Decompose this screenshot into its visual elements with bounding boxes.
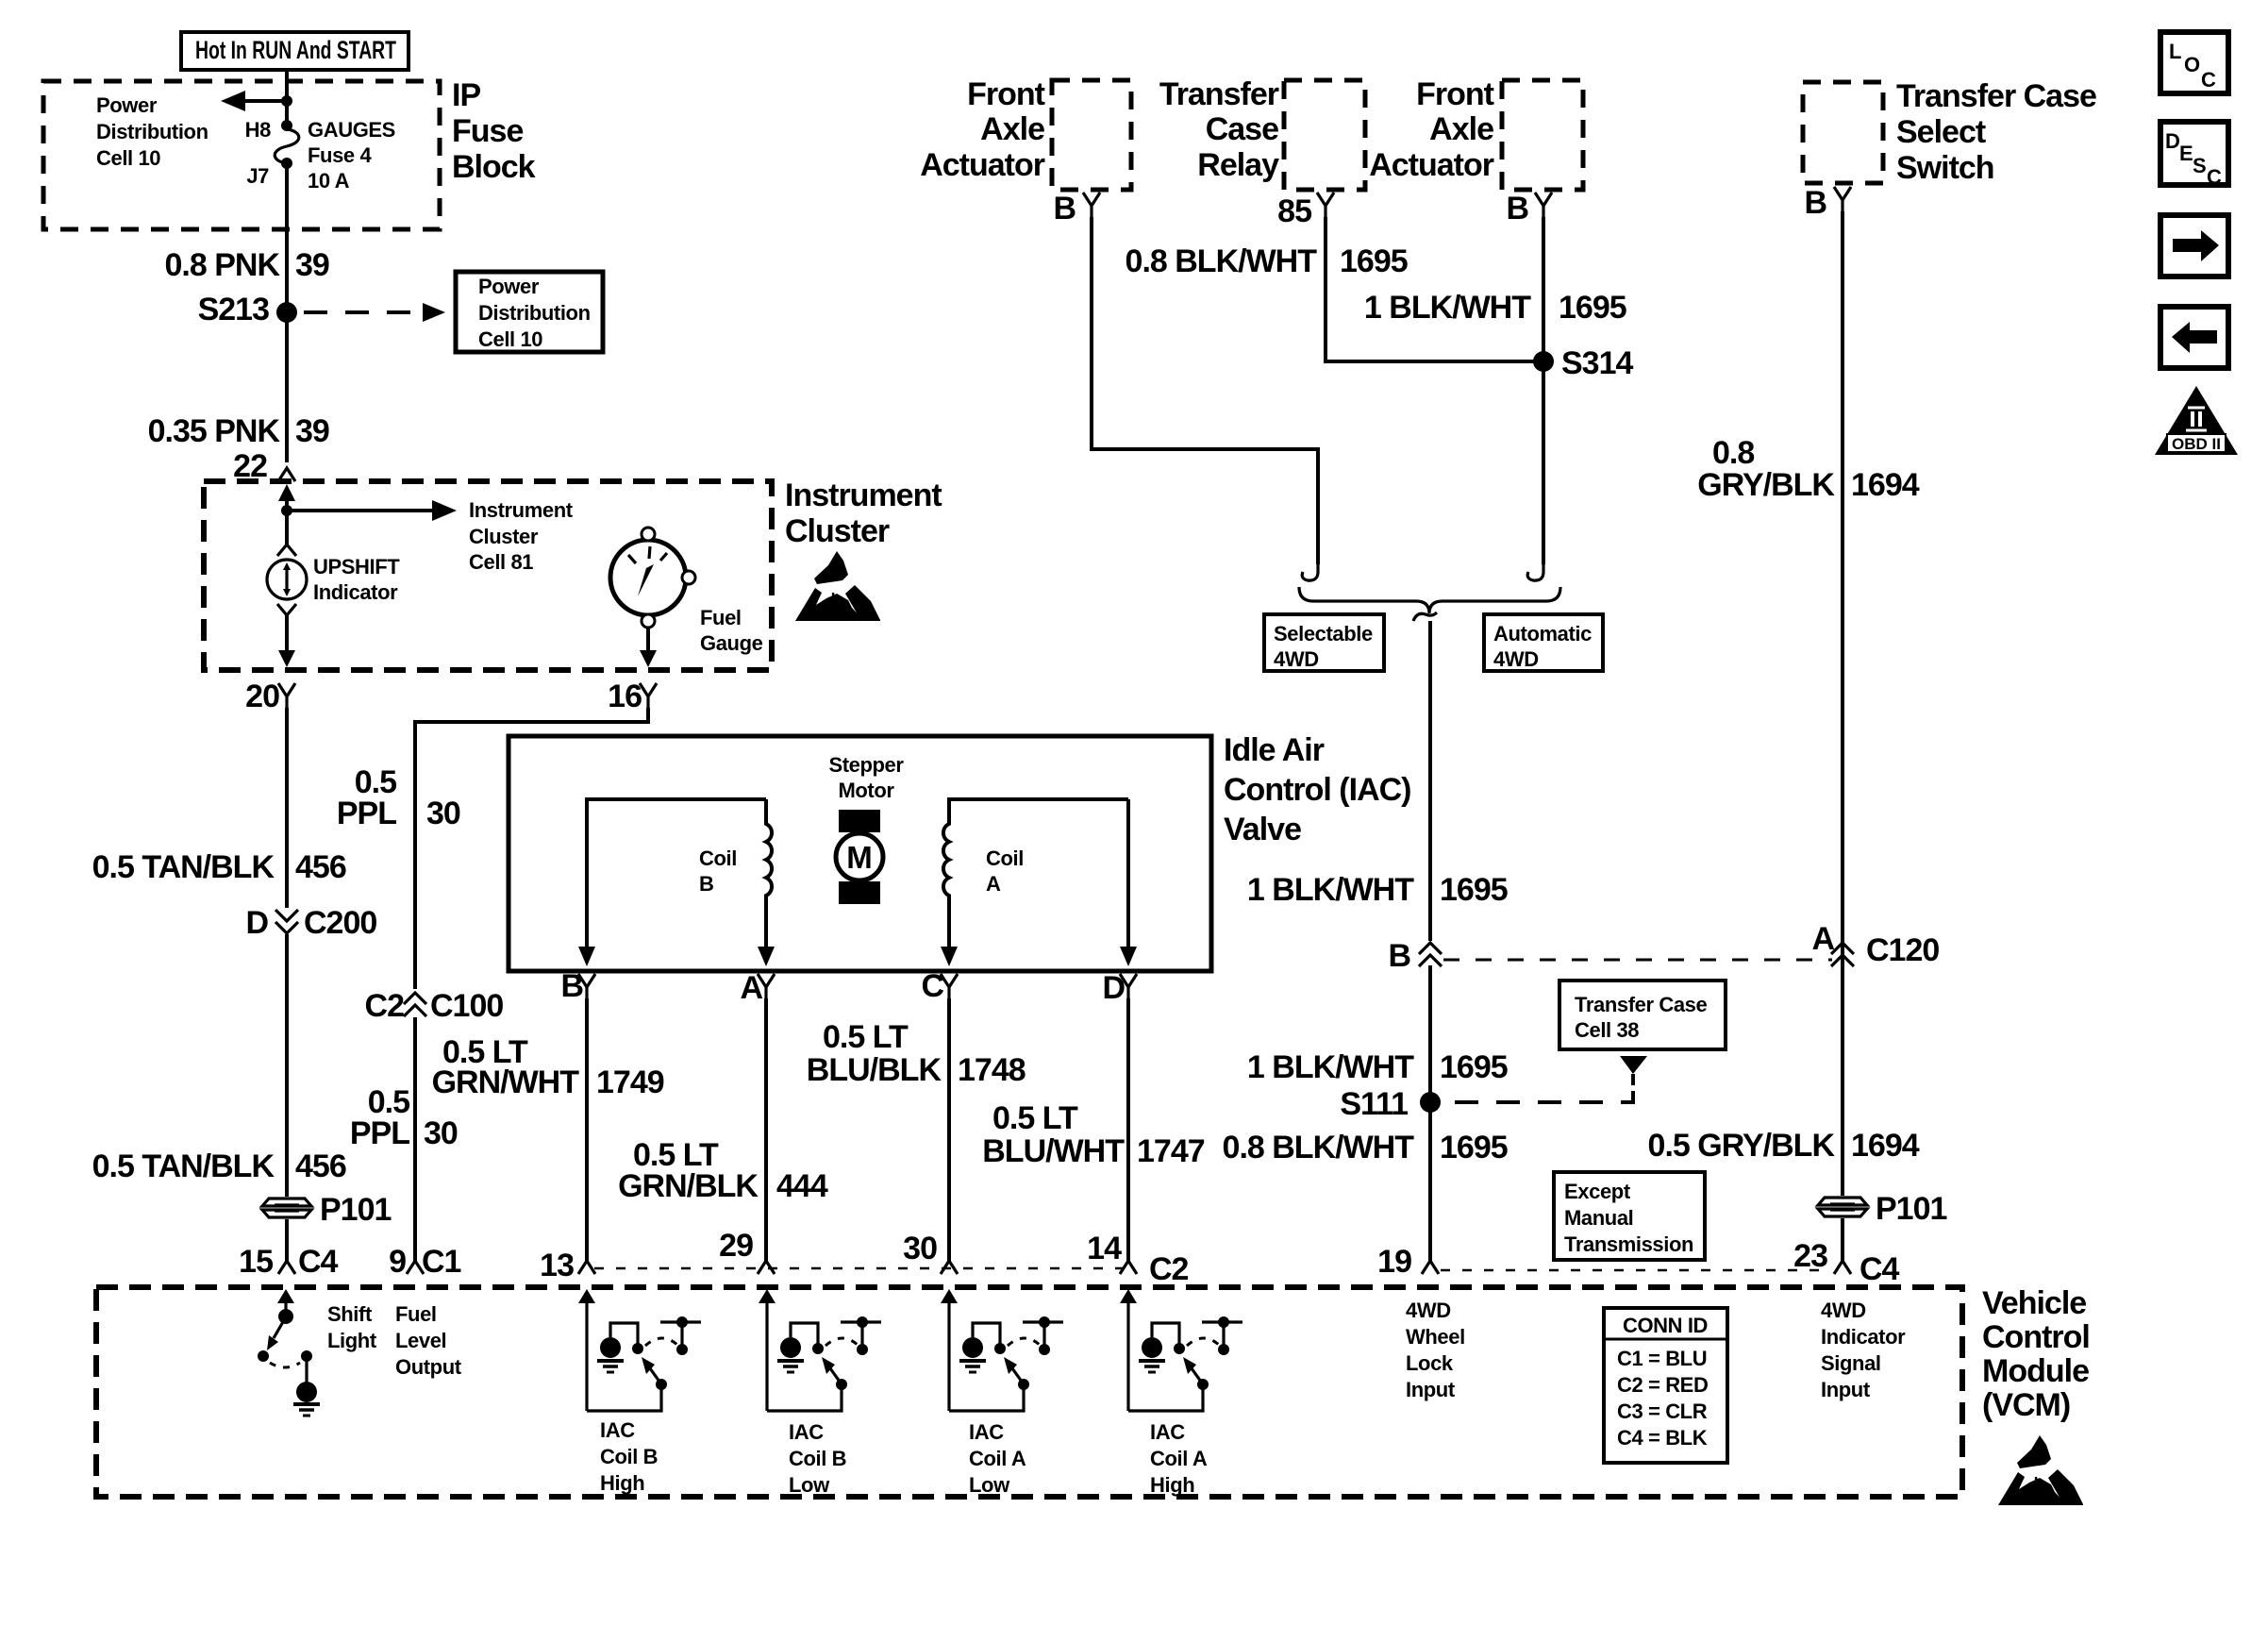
svg-text:85: 85 [1277,193,1311,229]
svg-text:GRN/BLK: GRN/BLK [618,1168,759,1204]
pin 29 [719,1228,775,1274]
pin 20 [245,679,295,714]
svg-text:Indicator: Indicator [1821,1325,1906,1349]
connector line C2 (thin dashed) [594,1267,1125,1269]
svg-text:1695: 1695 [1440,872,1508,908]
svg-text:Cluster: Cluster [469,525,539,548]
svg-text:Front: Front [1416,76,1494,112]
svg-text:1 BLK/WHT: 1 BLK/WHT [1247,1049,1414,1085]
svg-text:Lock: Lock [1406,1351,1454,1375]
splice S213 [198,292,297,327]
dashed arrow S111 to Transfer Case Cell 38 [1443,1056,1647,1102]
svg-text:0.8: 0.8 [1712,435,1754,471]
svg-text:0.5 LT: 0.5 LT [992,1100,1078,1136]
connector A C120 [1811,921,1939,968]
grommet P101 (right) [1817,1191,1946,1227]
svg-text:Cluster: Cluster [785,513,890,549]
wire label 1 BLK/WHT 1695 (2) [1247,1049,1508,1085]
svg-text:IAC: IAC [1150,1420,1185,1444]
svg-text:C2: C2 [1149,1251,1189,1287]
svg-text:0.8 BLK/WHT: 0.8 BLK/WHT [1223,1130,1415,1165]
wire label 0.5 PPL 30 (1) [337,764,460,831]
wire select switch to pin 23 [1841,211,1844,1261]
svg-text:C120: C120 [1866,932,1939,968]
wire 85 down to S314 [1326,217,1543,361]
legend icon DESC [2160,122,2228,189]
svg-text:14: 14 [1087,1231,1122,1266]
svg-text:IAC: IAC [789,1420,824,1444]
svg-text:S111: S111 [1340,1086,1408,1122]
svg-text:39: 39 [295,247,329,283]
label 4WD Indicator Signal Input [1821,1299,1906,1401]
pin 14 C2 [1087,1231,1188,1287]
svg-text:GRY/BLK: GRY/BLK [1697,467,1835,503]
svg-text:23: 23 [1793,1238,1827,1274]
svg-text:C100: C100 [430,988,503,1024]
svg-text:C4: C4 [1859,1251,1900,1287]
svg-text:PPL: PPL [350,1115,409,1151]
svg-text:0.5 TAN/BLK: 0.5 TAN/BLK [92,849,275,885]
node Automatic 4WD [1484,614,1603,671]
svg-text:Distribution: Distribution [96,120,208,143]
svg-text:Stepper: Stepper [828,753,904,777]
connector B C120 [1388,938,1442,974]
svg-text:Automatic: Automatic [1493,622,1592,645]
wire label 0.8 GRY/BLK 1694 [1697,435,1919,503]
svg-text:Motor: Motor [838,779,894,802]
svg-text:Axle: Axle [1429,111,1493,147]
svg-text:Light: Light [327,1329,377,1352]
svg-text:C1 = BLU: C1 = BLU [1617,1347,1707,1370]
wire IAC A to pin 29 [764,998,768,1261]
arrow to Instrument Cluster Cell 81 [287,498,574,574]
pin 19 [1377,1244,1439,1280]
svg-text:Manual: Manual [1564,1206,1633,1230]
svg-text:IP: IP [452,77,480,113]
svg-text:456: 456 [295,1148,346,1184]
legend icon OBD II triangle [2155,386,2238,455]
svg-text:Input: Input [1406,1378,1456,1401]
hook below brace [1413,612,1437,621]
wire label 0.35 PNK 39 [148,413,329,449]
svg-text:B: B [1804,185,1826,221]
svg-text:Cell 10: Cell 10 [478,327,542,351]
svg-text:444: 444 [776,1168,828,1204]
svg-text:GRN/WHT: GRN/WHT [432,1064,580,1100]
pin 15 C4 [239,1244,338,1280]
connector D C200 [245,905,376,941]
svg-text:C3 = CLR: C3 = CLR [1617,1400,1708,1423]
pin B select switch [1804,185,1851,221]
wire IAC C to pin 30 [947,998,951,1261]
svg-text:C: C [2201,68,2216,92]
svg-text:C1: C1 [422,1244,461,1280]
pin 23 C4 [1793,1238,1899,1287]
svg-text:Vehicle: Vehicle [1982,1285,2086,1321]
svg-text:Coil: Coil [699,847,737,870]
svg-text:1 BLK/WHT: 1 BLK/WHT [1247,872,1414,908]
svg-text:1695: 1695 [1559,290,1626,326]
svg-text:Except: Except [1564,1180,1631,1203]
svg-text:IAC: IAC [969,1420,1004,1444]
dashed arrow to Power Distribution Cell 10 [304,303,445,322]
wire label 0.5 LT GRN/BLK 444 [618,1137,828,1204]
svg-text:(VCM): (VCM) [1982,1387,2070,1423]
svg-text:Coil: Coil [986,847,1024,870]
svg-text:29: 29 [719,1228,753,1264]
brace gathering wires [1299,587,1560,613]
svg-text:C4: C4 [298,1244,339,1280]
svg-text:Wheel: Wheel [1406,1325,1465,1349]
svg-text:Control (IAC): Control (IAC) [1224,772,1411,808]
node CONN ID table [1604,1308,1727,1463]
svg-text:1695: 1695 [1340,243,1408,279]
svg-text:1749: 1749 [596,1064,664,1100]
svg-text:20: 20 [245,679,279,714]
svg-text:0.5 TAN/BLK: 0.5 TAN/BLK [92,1148,275,1184]
grommet P101 (left) [261,1192,391,1228]
svg-text:Actuator: Actuator [920,147,1045,183]
svg-text:Coil B: Coil B [600,1445,658,1468]
svg-text:D: D [2165,129,2180,153]
svg-text:GAUGES: GAUGES [308,118,395,142]
legend icon LOC [2160,32,2228,93]
svg-text:0.8 PNK: 0.8 PNK [165,247,281,283]
ESD symbol (instrument cluster) [795,551,880,621]
node Power Distribution Cell 10 (reference box) [456,272,603,352]
svg-text:Output: Output [395,1355,462,1379]
svg-text:39: 39 [295,413,329,449]
svg-text:B: B [1388,938,1410,974]
pin B actuator right [1506,191,1552,226]
pin D of IAC [1102,970,1137,1006]
svg-text:S314: S314 [1561,345,1633,381]
svg-text:H8: H8 [245,118,271,142]
svg-text:High: High [1150,1473,1194,1497]
svg-text:10 A: 10 A [308,169,350,193]
svg-text:9: 9 [389,1244,406,1280]
label 4WD Wheel Lock Input [1406,1299,1465,1401]
wire label 0.5 TAN/BLK 456 [92,849,346,885]
svg-text:1695: 1695 [1440,1049,1508,1085]
svg-text:Instrument: Instrument [469,498,574,522]
svg-text:S: S [2193,154,2206,177]
svg-text:0.5 LT: 0.5 LT [823,1019,909,1055]
svg-text:O: O [2184,53,2200,76]
wire pin20 down left side [285,708,289,1261]
svg-text:Transfer: Transfer [1159,76,1279,112]
wire B-right actuator down through S314 [1542,217,1545,564]
svg-text:1747: 1747 [1137,1133,1205,1169]
IAC driver Coil B High (pin 13) [578,1289,701,1495]
node Except Manual Transmission [1554,1172,1705,1260]
svg-text:Transmission: Transmission [1564,1232,1693,1256]
wire into cluster w/ up arrow [278,484,295,545]
pin 13 [540,1248,595,1283]
legend icon right arrow [2160,215,2228,277]
svg-text:PPL: PPL [337,796,396,831]
connector line C4 right (thin dashed) [1441,1269,1830,1271]
svg-text:Power: Power [478,275,540,298]
svg-text:C: C [921,968,943,1004]
svg-text:Transfer Case: Transfer Case [1575,993,1707,1016]
upshift indicator lamp U1 [267,545,400,615]
svg-text:Case: Case [1206,111,1278,147]
Transfer Case Select Switch box [1803,78,2096,186]
IP Fuse Block box [43,77,536,229]
svg-text:Select: Select [1896,114,1986,150]
fuse F4 GAUGES 10A [245,118,395,193]
wire from Hot In RUN to fuse [285,70,289,126]
label Fuel Level Output [395,1302,462,1379]
svg-text:Fuel: Fuel [395,1302,437,1326]
svg-text:UPSHIFT: UPSHIFT [313,555,400,578]
svg-text:1694: 1694 [1851,467,1920,503]
svg-text:Distribution: Distribution [478,301,591,325]
svg-text:S213: S213 [198,292,269,327]
wire label 1 BLK/WHT 1695 (1) [1247,872,1508,908]
svg-text:1694: 1694 [1851,1128,1920,1164]
svg-text:B: B [1053,191,1076,226]
svg-text:Low: Low [789,1473,830,1497]
svg-text:C: C [2207,165,2222,189]
IAC driver Coil B Low (pin 29) [759,1289,881,1497]
pin B of IAC [560,968,595,1004]
fuel gauge [610,528,763,655]
svg-text:Coil B: Coil B [789,1447,846,1470]
svg-text:30: 30 [424,1115,458,1151]
IAC driver Coil A Low (pin 30) [941,1289,1063,1497]
svg-text:Instrument: Instrument [785,478,942,513]
svg-text:4WD: 4WD [1274,647,1319,671]
svg-text:456: 456 [295,849,346,885]
svg-text:OBD II: OBD II [2172,435,2221,453]
wire IAC D to pin 14 [1126,998,1130,1261]
svg-text:Gauge: Gauge [700,631,763,655]
svg-text:16: 16 [608,679,642,714]
Idle Air Control (IAC) Valve box [509,732,1411,971]
svg-text:Fuse: Fuse [452,113,523,149]
svg-text:A: A [1811,921,1834,957]
wire label 0.5 LT BLU/WHT 1747 [982,1100,1204,1169]
svg-text:IAC: IAC [600,1418,635,1442]
svg-text:Cell 10: Cell 10 [96,146,160,170]
svg-text:1748: 1748 [958,1052,1026,1088]
svg-text:M: M [846,840,873,875]
wire arrow to Power Distribution [221,91,292,111]
svg-text:Module: Module [1982,1353,2089,1389]
svg-text:Power: Power [96,93,158,117]
wire label 0.5 LT GRN/WHT 1749 [432,1034,664,1100]
pin C of IAC [921,968,958,1004]
svg-text:Relay: Relay [1197,147,1279,183]
svg-text:Control: Control [1982,1319,2090,1355]
svg-text:4WD: 4WD [1493,647,1539,671]
splice S111 [1340,1086,1441,1122]
pin 22 connector at cluster [233,448,295,484]
svg-text:0.8 BLK/WHT: 0.8 BLK/WHT [1126,243,1318,279]
connector C2 C100 [365,988,504,1024]
svg-text:J7: J7 [246,164,269,188]
coil B [578,799,775,966]
wire label 0.5 GRY/BLK 1694 [1648,1128,1920,1164]
wire IAC B to pin 13 [585,998,589,1261]
ESD symbol (VCM) [1998,1435,2083,1505]
stepper motor M [828,753,904,904]
svg-text:Idle Air: Idle Air [1224,732,1325,768]
svg-text:Transfer Case: Transfer Case [1896,78,2096,114]
wire label 0.8 BLK/WHT 1695 [1223,1130,1508,1165]
svg-text:C200: C200 [304,905,376,941]
wire label 0.8 BLK/WHT 1695 [1126,243,1408,279]
svg-text:Low: Low [969,1473,1010,1497]
pin 30 [903,1231,958,1274]
svg-text:Front: Front [967,76,1045,112]
wire brace to pin 19 [1428,621,1432,1261]
svg-text:High: High [600,1471,644,1495]
svg-text:Cell 81: Cell 81 [469,550,533,574]
svg-text:Switch: Switch [1896,150,1994,186]
svg-text:E: E [2179,142,2193,165]
svg-text:Valve: Valve [1224,812,1301,847]
svg-text:C2 = RED: C2 = RED [1617,1373,1708,1397]
svg-text:Hot In RUN And START: Hot In RUN And START [195,36,396,64]
svg-text:4WD: 4WD [1406,1299,1451,1322]
svg-text:Actuator: Actuator [1369,147,1494,183]
legend icon left arrow [2160,307,2228,368]
svg-text:Fuel: Fuel [700,606,742,629]
svg-text:CONN ID: CONN ID [1623,1314,1708,1337]
svg-text:Shift: Shift [327,1302,373,1326]
wire B-left actuator down and right [1092,217,1318,564]
svg-text:1695: 1695 [1440,1130,1508,1165]
svg-text:Input: Input [1821,1378,1871,1401]
svg-text:15: 15 [239,1244,273,1280]
wire gauge to pin 16 [640,628,657,667]
svg-text:L: L [2169,40,2181,63]
wire upshift to pin 20 [278,615,295,667]
Front Axle Actuator (left) [920,76,1131,190]
svg-text:Coil A: Coil A [1150,1447,1208,1470]
svg-text:A: A [986,872,1001,896]
pin A of IAC [740,970,775,1006]
svg-text:30: 30 [426,796,460,831]
svg-text:13: 13 [540,1248,574,1283]
svg-text:Axle: Axle [980,111,1044,147]
dashed wire C120 B to A [1443,959,1832,962]
svg-text:P101: P101 [1876,1191,1946,1227]
Instrument Cluster box [204,478,942,670]
node Selectable 4WD [1264,614,1384,671]
pin 16 [608,679,657,714]
wire label 0.5 LT BLU/BLK 1748 [807,1019,1026,1088]
svg-text:C2: C2 [365,988,405,1024]
pin 85 relay [1277,193,1334,229]
Transfer Case Relay [1159,76,1365,190]
node Transfer Case Cell 38 [1559,981,1726,1049]
svg-text:BLU/BLK: BLU/BLK [807,1052,942,1088]
svg-text:Indicator: Indicator [313,580,398,604]
wire label 0.5 PPL 30 (2) [350,1084,458,1151]
svg-text:1 BLK/WHT: 1 BLK/WHT [1364,290,1531,326]
svg-text:Selectable: Selectable [1274,622,1373,645]
svg-text:D: D [245,905,268,941]
svg-text:C4 = BLK: C4 = BLK [1617,1426,1708,1450]
svg-text:Coil A: Coil A [969,1447,1026,1470]
svg-text:30: 30 [903,1231,937,1266]
wire label 1 BLK/WHT 1695 [1364,290,1626,326]
wire fuse to S213 to pin 22 [285,163,289,462]
node Power Distribution Cell 10 (label in fuse block) [96,93,208,170]
pin B actuator left [1053,191,1100,226]
hook at wire end left [1302,562,1318,580]
svg-text:B: B [560,968,583,1004]
svg-text:Fuse 4: Fuse 4 [308,143,372,167]
wire pin16 to PPL column [415,708,648,1261]
svg-text:B: B [1506,191,1528,226]
svg-text:Level: Level [395,1329,446,1352]
svg-text:4WD: 4WD [1821,1299,1866,1322]
svg-text:0.5 GRY/BLK: 0.5 GRY/BLK [1648,1128,1836,1164]
pin 9 C1 [389,1244,460,1280]
splice S314 [1533,345,1633,381]
svg-text:BLU/WHT: BLU/WHT [982,1133,1125,1169]
hook at wire end right [1527,562,1543,580]
svg-text:19: 19 [1377,1244,1411,1280]
node Hot In RUN And START [181,32,409,70]
Vehicle Control Module (VCM) box [96,1285,2090,1497]
svg-text:Cell 38: Cell 38 [1575,1018,1639,1042]
svg-text:Block: Block [452,149,536,185]
IAC driver Coil A High (pin 14) [1120,1289,1242,1497]
svg-text:P101: P101 [320,1192,391,1228]
coil A [941,799,1137,966]
svg-text:Signal: Signal [1821,1351,1881,1375]
wire label 0.8 PNK 39 [165,247,329,283]
wire label 0.5 TAN/BLK 456 (2) [92,1148,346,1184]
shift light output driver [258,1289,377,1416]
svg-text:0.35 PNK: 0.35 PNK [148,413,281,449]
svg-text:B: B [699,872,714,896]
Front Axle Actuator (right) [1369,76,1583,190]
